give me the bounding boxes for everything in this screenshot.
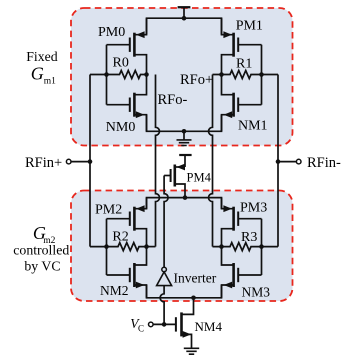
svg-text:NM0: NM0 bbox=[106, 120, 136, 135]
svg-text:Inverter: Inverter bbox=[174, 270, 217, 285]
wire: PM2/NM2 gate bus bbox=[106, 219, 108, 275]
wire: RFin- riser (R1 row to R3 row) bbox=[277, 75, 279, 247]
transistor NM3 bbox=[222, 247, 262, 298]
svg-text:PM2: PM2 bbox=[95, 203, 122, 218]
svg-text:R2: R2 bbox=[112, 229, 128, 244]
node: R0 right / PM0-NM0 drain bbox=[144, 72, 149, 77]
transistor NM1 bbox=[222, 75, 262, 132]
node: R2 right / PM2-NM2 drain bbox=[144, 244, 149, 249]
inverter U1 bbox=[157, 267, 172, 285]
resistor R3 bbox=[213, 243, 279, 251]
node: gate/R2 junction (left) bbox=[104, 244, 109, 249]
wire: R2 row extension to RFo- bbox=[147, 246, 156, 248]
svg-text:RFin+: RFin+ bbox=[25, 155, 62, 171]
svg-text:PM4: PM4 bbox=[187, 170, 212, 184]
wire: RFin+ riser (R0 row to R2 row) bbox=[89, 75, 91, 247]
svg-text:NM3: NM3 bbox=[242, 284, 271, 299]
wire: inverter output to PM4 gate (hop over rail) bbox=[164, 176, 168, 268]
svg-text:C: C bbox=[138, 324, 144, 334]
node: R3 left / PM3-NM3 drain bbox=[219, 244, 224, 249]
terminal RFin- bbox=[296, 159, 301, 164]
wire: PM1/NM1 gate bus bbox=[261, 45, 263, 105]
resistor R0 bbox=[90, 71, 147, 79]
node: gate/R0 junction (left) bbox=[104, 72, 109, 77]
svg-text:by VC: by VC bbox=[24, 258, 60, 273]
node: PM4 drain on Gm2 rail bbox=[183, 195, 188, 200]
wire: PM0/NM0 gate bus bbox=[106, 45, 108, 105]
svg-text:controlled: controlled bbox=[13, 243, 69, 258]
svg-text:NM1: NM1 bbox=[238, 119, 268, 134]
node: R1 left / PM1-NM1 drain bbox=[219, 72, 224, 77]
wire: RFin+ lead bbox=[71, 161, 90, 163]
svg-text:NM4: NM4 bbox=[195, 319, 223, 334]
node: gate/R1 junction (right) bbox=[259, 72, 264, 77]
node: VC / inverter input junction bbox=[162, 322, 167, 327]
Gm2 controlled-by-VC block (dashed red rounded box, light fill) bbox=[71, 191, 293, 302]
transistor PM3 bbox=[222, 198, 262, 247]
power VDD stub (PM4) bbox=[179, 155, 191, 167]
transistor PM2 bbox=[107, 198, 147, 247]
ground (top block) bbox=[177, 131, 192, 145]
wire: RFin- lead bbox=[278, 161, 296, 163]
svg-text:R1: R1 bbox=[236, 56, 252, 71]
svg-text:m1: m1 bbox=[44, 77, 56, 87]
wire: top VDD rail bbox=[147, 18, 222, 34]
svg-text:R0: R0 bbox=[113, 56, 129, 71]
svg-text:Fixed: Fixed bbox=[26, 49, 58, 64]
wire: PM3/NM3 gate bus bbox=[261, 219, 263, 275]
node: VDD rail junction bbox=[182, 16, 187, 21]
node: NM4 drain on source rail bbox=[191, 296, 196, 301]
terminal RFin+ bbox=[66, 159, 71, 164]
Fixed Gm1 block (dashed red rounded box, light fill) bbox=[71, 8, 293, 146]
wire: RFo+ riser with hops bbox=[209, 75, 213, 247]
svg-text:PM1: PM1 bbox=[236, 19, 263, 34]
wire: NM0/NM1 source row to ground bbox=[147, 115, 222, 132]
resistor R1 bbox=[213, 71, 279, 79]
svg-text:RFo-: RFo- bbox=[158, 92, 188, 108]
svg-text:G: G bbox=[31, 63, 44, 83]
transistor NM2 bbox=[107, 247, 147, 298]
wire: NM2/NM3 source rail bbox=[147, 285, 222, 298]
transistor NM0 bbox=[107, 75, 147, 132]
power VDD stub (top) bbox=[178, 7, 191, 18]
node: ground junction bbox=[182, 129, 187, 134]
svg-text:RFo+: RFo+ bbox=[180, 72, 213, 88]
node: RFin+ junction bbox=[88, 159, 93, 164]
svg-text:RFin-: RFin- bbox=[307, 155, 341, 171]
wire: RFo- riser with hops bbox=[156, 75, 160, 247]
svg-text:PM3: PM3 bbox=[240, 201, 267, 216]
wire: Gm2 VDD rail (PM4 drain to PM2/PM3 sources) bbox=[147, 198, 222, 209]
transistor PM4 bbox=[164, 164, 185, 198]
resistor R2 bbox=[90, 243, 147, 251]
transistor PM0 bbox=[107, 18, 147, 74]
svg-text:PM0: PM0 bbox=[98, 25, 125, 40]
transistor NM4 bbox=[176, 298, 194, 348]
node: RFin- junction bbox=[276, 159, 281, 164]
terminal VC bbox=[149, 322, 154, 327]
svg-text:R3: R3 bbox=[241, 230, 257, 245]
svg-text:NM2: NM2 bbox=[100, 283, 129, 298]
node: gate/R3 junction (right) bbox=[259, 244, 264, 249]
transistor PM1 bbox=[222, 18, 262, 74]
wire: VC lead to NM4 gate bbox=[153, 323, 176, 325]
wire: inverter input from VC (hop over rail) bbox=[160, 286, 164, 325]
ground (NM4 source) bbox=[184, 348, 199, 354]
